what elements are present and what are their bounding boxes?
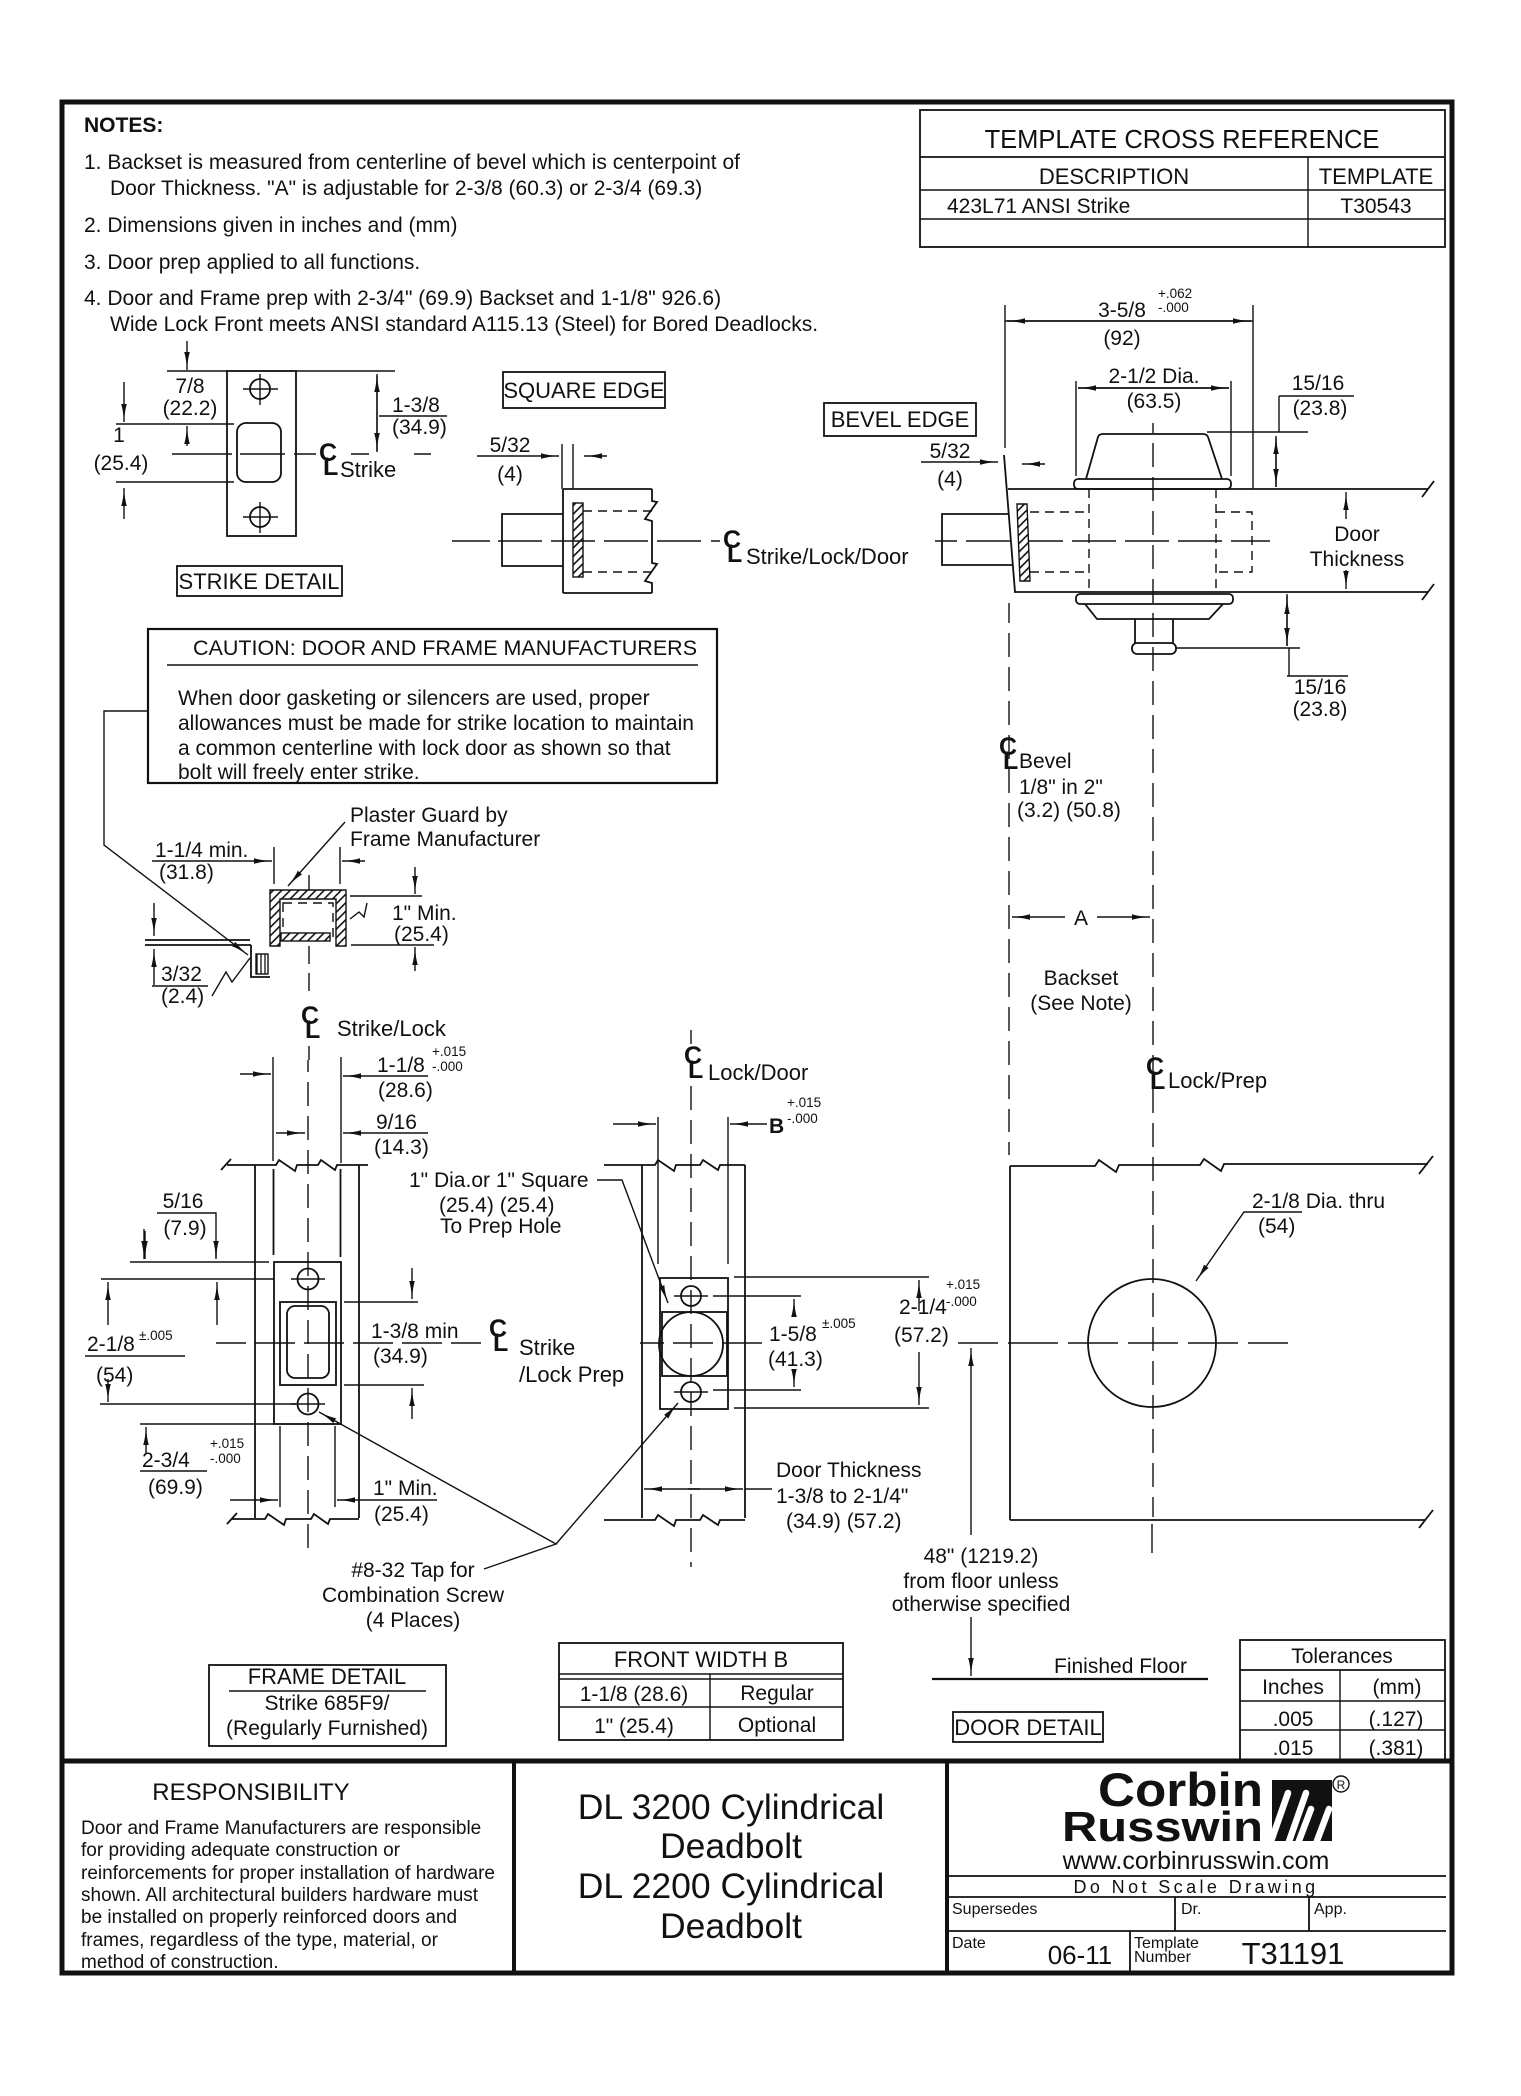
- square edge label box: [503, 372, 665, 408]
- dim 5/32 (4): [477, 455, 559, 457]
- svg-text:423L71 ANSI Strike: 423L71 ANSI Strike: [947, 195, 1130, 218]
- svg-text:To Prep Hole: To Prep Hole: [440, 1215, 561, 1238]
- svg-text:(92): (92): [1103, 327, 1140, 350]
- svg-text:TEMPLATE CROSS REFERENCE: TEMPLATE CROSS REFERENCE: [985, 126, 1380, 154]
- svg-text:(25.4) (25.4): (25.4) (25.4): [439, 1194, 555, 1217]
- svg-text:1" Min.: 1" Min.: [373, 1477, 438, 1500]
- dim 2-1/2 Dia. (63.5): [1075, 381, 1077, 476]
- svg-text:(mm): (mm): [1373, 1676, 1422, 1699]
- lock front plate hatched: [573, 503, 583, 577]
- #8-32 leader right: [556, 1403, 678, 1544]
- svg-text:06-11: 06-11: [1048, 1940, 1113, 1970]
- lock body hidden: [1030, 512, 1085, 572]
- svg-text:Bevel: Bevel: [1019, 750, 1072, 773]
- thumbturn stem: [1135, 619, 1173, 643]
- dim B +.015 -.000: [657, 1117, 659, 1264]
- svg-text:Strike 685F9/: Strike 685F9/: [265, 1692, 390, 1715]
- bevel centerline vertical: [1008, 603, 1010, 1155]
- left bolt cutout: [280, 1302, 336, 1385]
- svg-text:TEMPLATE: TEMPLATE: [1319, 164, 1434, 189]
- svg-text:(.127): (.127): [1369, 1708, 1424, 1731]
- svg-text:(28.6): (28.6): [378, 1079, 433, 1102]
- dim 2-3/4 +.015 -.000 (69.9): [144, 1231, 146, 1259]
- dim 1-3/8 (34.9): [376, 374, 378, 452]
- door detail left edge: [1009, 1166, 1011, 1520]
- svg-text:-.000: -.000: [1158, 300, 1189, 315]
- tailpiece hidden: [1216, 512, 1252, 572]
- svg-text:Plaster Guard by: Plaster Guard by: [350, 804, 508, 827]
- frame top edge break: [221, 1159, 368, 1171]
- hidden hole lines: [583, 510, 653, 512]
- svg-text:(4): (4): [497, 463, 523, 486]
- svg-text:±.005: ±.005: [822, 1316, 856, 1331]
- latch bolt bevel: [942, 514, 1013, 565]
- svg-text:2-1/8 Dia. thru: 2-1/8 Dia. thru: [1252, 1190, 1385, 1213]
- front width B table: [559, 1643, 843, 1740]
- dim 3-5/8 +.062 -.000 (92): [1004, 305, 1006, 448]
- strike bottom screw hole: [250, 507, 270, 527]
- svg-text:3/32: 3/32: [161, 963, 202, 986]
- strike lip screw knurled: [256, 954, 268, 974]
- frame step: [251, 945, 270, 977]
- bore hole circle: [1088, 1279, 1216, 1407]
- svg-text:+.015: +.015: [946, 1277, 980, 1292]
- svg-text:Number: Number: [1134, 1949, 1192, 1966]
- svg-text:7/8: 7/8: [175, 375, 204, 398]
- svg-text:DESCRIPTION: DESCRIPTION: [1039, 164, 1189, 189]
- svg-text:±.005: ±.005: [139, 1328, 173, 1343]
- strike plate: [227, 371, 296, 536]
- lock front hatched bevel: [1017, 504, 1030, 581]
- plaster guard plate: [281, 933, 330, 941]
- svg-text:be installed on properly reinf: be installed on properly reinforced door…: [81, 1907, 457, 1928]
- svg-text:FRAME DETAIL: FRAME DETAIL: [248, 1664, 407, 1689]
- frame bottom edge break: [227, 1513, 359, 1525]
- svg-text:5/32: 5/32: [930, 440, 971, 463]
- svg-text:+.015: +.015: [787, 1095, 821, 1110]
- break squiggle: [350, 903, 367, 919]
- svg-text:(25.4): (25.4): [94, 452, 149, 475]
- svg-text:A: A: [1074, 907, 1088, 930]
- svg-text:Strike: Strike: [340, 457, 396, 482]
- svg-text:BEVEL EDGE: BEVEL EDGE: [831, 407, 970, 432]
- svg-text:from floor unless: from floor unless: [903, 1570, 1058, 1593]
- svg-text:RESPONSIBILITY: RESPONSIBILITY: [152, 1779, 349, 1806]
- svg-text:-.000: -.000: [946, 1294, 977, 1309]
- left bottom screw hole: [298, 1394, 319, 1415]
- strike box hidden: [283, 903, 333, 940]
- svg-text:a common centerline with lock: a common centerline with lock door as sh…: [178, 737, 671, 760]
- svg-text:(2.4): (2.4): [161, 985, 204, 1008]
- latch bolt: [502, 514, 563, 566]
- svg-text:1" (25.4): 1" (25.4): [594, 1715, 674, 1738]
- svg-text:4. Door and Frame prep with 2-: 4. Door and Frame prep with 2-3/4" (69.9…: [84, 287, 721, 310]
- caution box: [148, 629, 717, 783]
- svg-text:Strike/Lock/Door: Strike/Lock/Door: [746, 544, 909, 569]
- svg-text:(4 Places): (4 Places): [366, 1609, 461, 1632]
- door detail bottom edge: [1010, 1510, 1433, 1528]
- spindle housing: [1085, 604, 1223, 619]
- svg-text:(Regularly Furnished): (Regularly Furnished): [226, 1717, 428, 1740]
- svg-text:15/16: 15/16: [1294, 676, 1347, 699]
- svg-text:Dr.: Dr.: [1181, 1901, 1201, 1918]
- svg-text:Deadbolt: Deadbolt: [660, 1826, 802, 1866]
- cylinder flange bottom: [1076, 594, 1233, 604]
- dim 15/16 (23.8) bottom: [1176, 647, 1300, 649]
- svg-text:(63.5): (63.5): [1127, 390, 1182, 413]
- svg-text:#8-32 Tap for: #8-32 Tap for: [351, 1559, 474, 1582]
- svg-text:Finished Floor: Finished Floor: [1054, 1655, 1187, 1678]
- svg-text:Deadbolt: Deadbolt: [660, 1906, 802, 1946]
- svg-text:Regular: Regular: [740, 1682, 814, 1705]
- svg-text:2-1/4: 2-1/4: [899, 1296, 947, 1319]
- svg-text:1-5/8: 1-5/8: [769, 1323, 817, 1346]
- svg-text:.015: .015: [1273, 1737, 1314, 1760]
- dim 1 (25.4): [116, 423, 234, 425]
- title block frame: [62, 1759, 1452, 1764]
- svg-text:.005: .005: [1273, 1708, 1314, 1731]
- svg-text:Door Thickness. "A" is adjusta: Door Thickness. "A" is adjustable for 2-…: [110, 177, 702, 200]
- strike detail label box: [177, 566, 342, 596]
- left top screw hole: [298, 1269, 319, 1290]
- svg-text:(23.8): (23.8): [1293, 698, 1348, 721]
- svg-text:Optional: Optional: [738, 1714, 816, 1737]
- centerline symbol bevel: [999, 733, 1018, 775]
- frame jamb lines: [254, 1165, 256, 1518]
- svg-text:(41.3): (41.3): [768, 1348, 823, 1371]
- tolerances table: [1240, 1640, 1445, 1760]
- 3/32 squiggle leader: [212, 958, 250, 996]
- svg-text:Strike/Lock: Strike/Lock: [337, 1016, 447, 1041]
- dim 3/32 (2.4): [153, 903, 155, 936]
- svg-text:1-1/8: 1-1/8: [377, 1054, 425, 1077]
- centerline symbol lock/door: [684, 1042, 703, 1084]
- svg-text:T31191: T31191: [1242, 1936, 1345, 1971]
- svg-text:(14.3): (14.3): [374, 1136, 429, 1159]
- door section bottom edge: [1014, 591, 1428, 593]
- svg-text:FRONT WIDTH B: FRONT WIDTH B: [614, 1647, 788, 1672]
- svg-text:2-1/2 Dia.: 2-1/2 Dia.: [1108, 365, 1199, 388]
- centerline symbol lock/prep: [1146, 1053, 1165, 1095]
- svg-text:+.015: +.015: [210, 1436, 244, 1451]
- dim 1-3/8 min (34.9): [344, 1301, 418, 1303]
- #8-32 leader left: [319, 1412, 556, 1569]
- strike box walls hatched: [270, 890, 346, 946]
- strike top screw hole: [250, 379, 270, 399]
- door top edge break: [604, 1160, 745, 1171]
- svg-text:T30543: T30543: [1340, 195, 1411, 218]
- dim 1" min (25.4) bottom: [279, 1426, 281, 1507]
- svg-text:DL 3200 Cylindrical: DL 3200 Cylindrical: [578, 1787, 885, 1827]
- cylinder head: [1086, 434, 1222, 479]
- svg-text:Strike: Strike: [519, 1335, 575, 1360]
- bottom screw door: [681, 1382, 701, 1402]
- svg-text:1-3/8 to 2-1/4": 1-3/8 to 2-1/4": [776, 1485, 908, 1508]
- svg-text:1-3/8: 1-3/8: [392, 394, 440, 417]
- svg-text:(.381): (.381): [1369, 1737, 1424, 1760]
- svg-text:for providing adequate constru: for providing adequate construction or: [81, 1840, 401, 1861]
- strike/lock centerline: [308, 875, 310, 890]
- svg-text:bolt will freely enter strike.: bolt will freely enter strike.: [178, 761, 420, 784]
- lock front plate: [660, 1278, 728, 1409]
- svg-text:1-1/4 min.: 1-1/4 min.: [155, 839, 248, 862]
- cross reference table frame: [920, 110, 1445, 247]
- centerline strike/lock/door: [452, 540, 720, 542]
- svg-text:otherwise specified: otherwise specified: [892, 1593, 1071, 1616]
- supersedes row: [1174, 1897, 1176, 1931]
- dim 1-1/8 +.015 -.000 (28.6): [272, 1057, 274, 1161]
- svg-text:DOOR DETAIL: DOOR DETAIL: [954, 1715, 1102, 1740]
- dim 9/16 (14.3): [276, 1132, 305, 1134]
- svg-text:2-3/4: 2-3/4: [142, 1449, 190, 1472]
- svg-text:Tolerances: Tolerances: [1291, 1645, 1393, 1668]
- svg-text:method of construction.: method of construction.: [81, 1952, 279, 1973]
- date row: [1129, 1931, 1131, 1973]
- svg-text:(69.9): (69.9): [148, 1476, 203, 1499]
- svg-text:(54): (54): [96, 1364, 133, 1387]
- svg-text:(54): (54): [1258, 1215, 1295, 1238]
- strike centerline: [172, 453, 431, 455]
- svg-text:2-1/8: 2-1/8: [87, 1333, 135, 1356]
- door faces: [641, 1165, 643, 1518]
- svg-text:9/16: 9/16: [376, 1111, 417, 1134]
- svg-text:reinforcements for proper inst: reinforcements for proper installation o…: [81, 1863, 495, 1884]
- svg-text:CAUTION: DOOR AND FRAME MANUFA: CAUTION: DOOR AND FRAME MANUFACTURERS: [193, 636, 697, 660]
- frame face lines: [145, 940, 251, 945]
- svg-text:(34.9): (34.9): [392, 416, 447, 439]
- centerline symbol strike/lock prep: [489, 1315, 508, 1357]
- strike bolt cutout: [237, 423, 281, 482]
- door bottom edge break: [604, 1515, 745, 1526]
- svg-text:+.062: +.062: [1158, 286, 1192, 301]
- prep hole circle: [659, 1312, 723, 1376]
- svg-text:shown. All architectural build: shown. All architectural builders hardwa…: [81, 1885, 479, 1906]
- svg-text:/Lock Prep: /Lock Prep: [519, 1362, 624, 1387]
- svg-text:1" Dia.or 1" Square: 1" Dia.or 1" Square: [409, 1169, 589, 1192]
- svg-text:-.000: -.000: [432, 1059, 463, 1074]
- door right break: [1422, 481, 1434, 600]
- frame centerline vertical: [307, 1060, 309, 1548]
- svg-text:www.corbinrusswin.com: www.corbinrusswin.com: [1062, 1847, 1330, 1875]
- svg-text:Inches: Inches: [1262, 1676, 1324, 1699]
- 5/32 extension lines: [561, 444, 563, 489]
- svg-text:NOTES:: NOTES:: [84, 114, 163, 137]
- svg-text:3. Door prep applied to all fu: 3. Door prep applied to all functions.: [84, 251, 420, 274]
- svg-text:15/16: 15/16: [1292, 372, 1345, 395]
- svg-text:1-3/8 min: 1-3/8 min: [371, 1320, 459, 1343]
- bore hole h centerline: [958, 1342, 1288, 1344]
- prep hole square: [662, 1312, 727, 1376]
- door section top edge: [1008, 488, 1428, 490]
- bevel edge line: [1004, 455, 1015, 592]
- bevel edge label box: [824, 403, 976, 436]
- svg-text:(31.8): (31.8): [159, 861, 214, 884]
- svg-text:Door and Frame Manufacturers a: Door and Frame Manufacturers are respons…: [81, 1818, 481, 1839]
- svg-text:(34.9): (34.9): [373, 1345, 428, 1368]
- top screw door: [681, 1286, 701, 1306]
- svg-text:(3.2) (50.8): (3.2) (50.8): [1017, 799, 1121, 822]
- registered mark: [1333, 1776, 1349, 1792]
- dim A backset: [1012, 916, 1065, 918]
- svg-text:(34.9) (57.2): (34.9) (57.2): [786, 1510, 902, 1533]
- svg-text:Combination Screw: Combination Screw: [322, 1584, 505, 1607]
- svg-text:(7.9): (7.9): [163, 1217, 206, 1240]
- svg-text:-.000: -.000: [210, 1451, 241, 1466]
- svg-text:(57.2): (57.2): [894, 1324, 949, 1347]
- svg-text:Supersedes: Supersedes: [952, 1901, 1037, 1918]
- svg-text:SQUARE EDGE: SQUARE EDGE: [503, 378, 664, 403]
- svg-text:R: R: [1337, 1778, 1346, 1792]
- bore hole v tail: [1151, 1524, 1153, 1553]
- svg-text:5/16: 5/16: [163, 1190, 204, 1213]
- svg-text:Door Thickness: Door Thickness: [776, 1459, 922, 1482]
- frame detail box: [209, 1665, 446, 1746]
- caution leader: [104, 711, 248, 955]
- svg-text:When door gasketing or silence: When door gasketing or silencers are use…: [178, 687, 650, 710]
- svg-text:frames, regardless of the type: frames, regardless of the type, material…: [81, 1930, 439, 1951]
- door detail label box: [953, 1712, 1103, 1742]
- svg-text:Door: Door: [1334, 523, 1380, 546]
- door detail top edge break: [1010, 1156, 1433, 1174]
- svg-text:Wide Lock Front meets ANSI sta: Wide Lock Front meets ANSI standard A115…: [110, 313, 818, 336]
- door edge section: [563, 489, 652, 593]
- svg-text:App.: App.: [1314, 1901, 1347, 1918]
- svg-text:(25.4): (25.4): [394, 923, 449, 946]
- svg-text:allowances must be made for st: allowances must be made for strike locat…: [178, 712, 694, 735]
- svg-text:1-1/8 (28.6): 1-1/8 (28.6): [580, 1683, 689, 1706]
- cylinder collar: [1074, 479, 1231, 489]
- do not scale row: [947, 1875, 1446, 1877]
- svg-text:1/8" in 2": 1/8" in 2": [1019, 776, 1103, 799]
- svg-text:1. Backset is measured from ce: 1. Backset is measured from centerline o…: [84, 151, 740, 174]
- logo mark: [1268, 1780, 1332, 1850]
- svg-text:3-5/8: 3-5/8: [1098, 299, 1146, 322]
- svg-text:Do Not Scale Drawing: Do Not Scale Drawing: [1073, 1877, 1318, 1897]
- dim 2-1/4 +.015 -.000 (57.2): [734, 1276, 929, 1278]
- lock/prep centerline vertical: [1152, 423, 1154, 1517]
- dim 1-5/8 +-.005 (41.3): [713, 1295, 801, 1297]
- door edge right break: [645, 489, 657, 593]
- svg-text:+.015: +.015: [432, 1044, 466, 1059]
- thumbturn cap: [1132, 643, 1176, 654]
- svg-text:5/32: 5/32: [490, 434, 531, 457]
- svg-text:Russwin: Russwin: [1062, 1803, 1263, 1850]
- svg-text:1" Min.: 1" Min.: [392, 902, 457, 925]
- dim 1" min (25.4): [350, 895, 422, 897]
- 1" dia leader: [597, 1180, 668, 1303]
- svg-text:Thickness: Thickness: [1310, 548, 1405, 571]
- svg-text:(23.8): (23.8): [1293, 397, 1348, 420]
- svg-text:(22.2): (22.2): [163, 397, 218, 420]
- plaster guard leader: [288, 822, 345, 886]
- centerline symbol strike: [319, 439, 338, 481]
- lock/door centerline vertical: [690, 1030, 692, 1567]
- strike plate left: [274, 1262, 341, 1424]
- svg-text:Backset: Backset: [1044, 967, 1119, 990]
- svg-text:(4): (4): [937, 468, 963, 491]
- svg-text:DL 2200 Cylindrical: DL 2200 Cylindrical: [578, 1866, 885, 1906]
- svg-text:1: 1: [113, 424, 125, 447]
- dim 7/8 (22.2): [167, 370, 227, 372]
- svg-text:B: B: [769, 1115, 784, 1138]
- svg-text:Date: Date: [952, 1935, 986, 1952]
- svg-text:Frame Manufacturer: Frame Manufacturer: [350, 828, 540, 851]
- svg-text:(25.4): (25.4): [374, 1503, 429, 1526]
- centerline horizontal left: [216, 1342, 481, 1344]
- door thickness dim: [644, 1488, 700, 1490]
- svg-text:2. Dimensions given in inches: 2. Dimensions given in inches and (mm): [84, 214, 458, 237]
- svg-text:STRIKE DETAIL: STRIKE DETAIL: [179, 569, 340, 594]
- svg-text:(See Note): (See Note): [1030, 992, 1132, 1015]
- svg-text:Lock/Prep: Lock/Prep: [1168, 1068, 1267, 1093]
- svg-text:-.000: -.000: [787, 1111, 818, 1126]
- svg-text:48" (1219.2): 48" (1219.2): [924, 1545, 1039, 1568]
- svg-text:Lock/Door: Lock/Door: [708, 1060, 808, 1085]
